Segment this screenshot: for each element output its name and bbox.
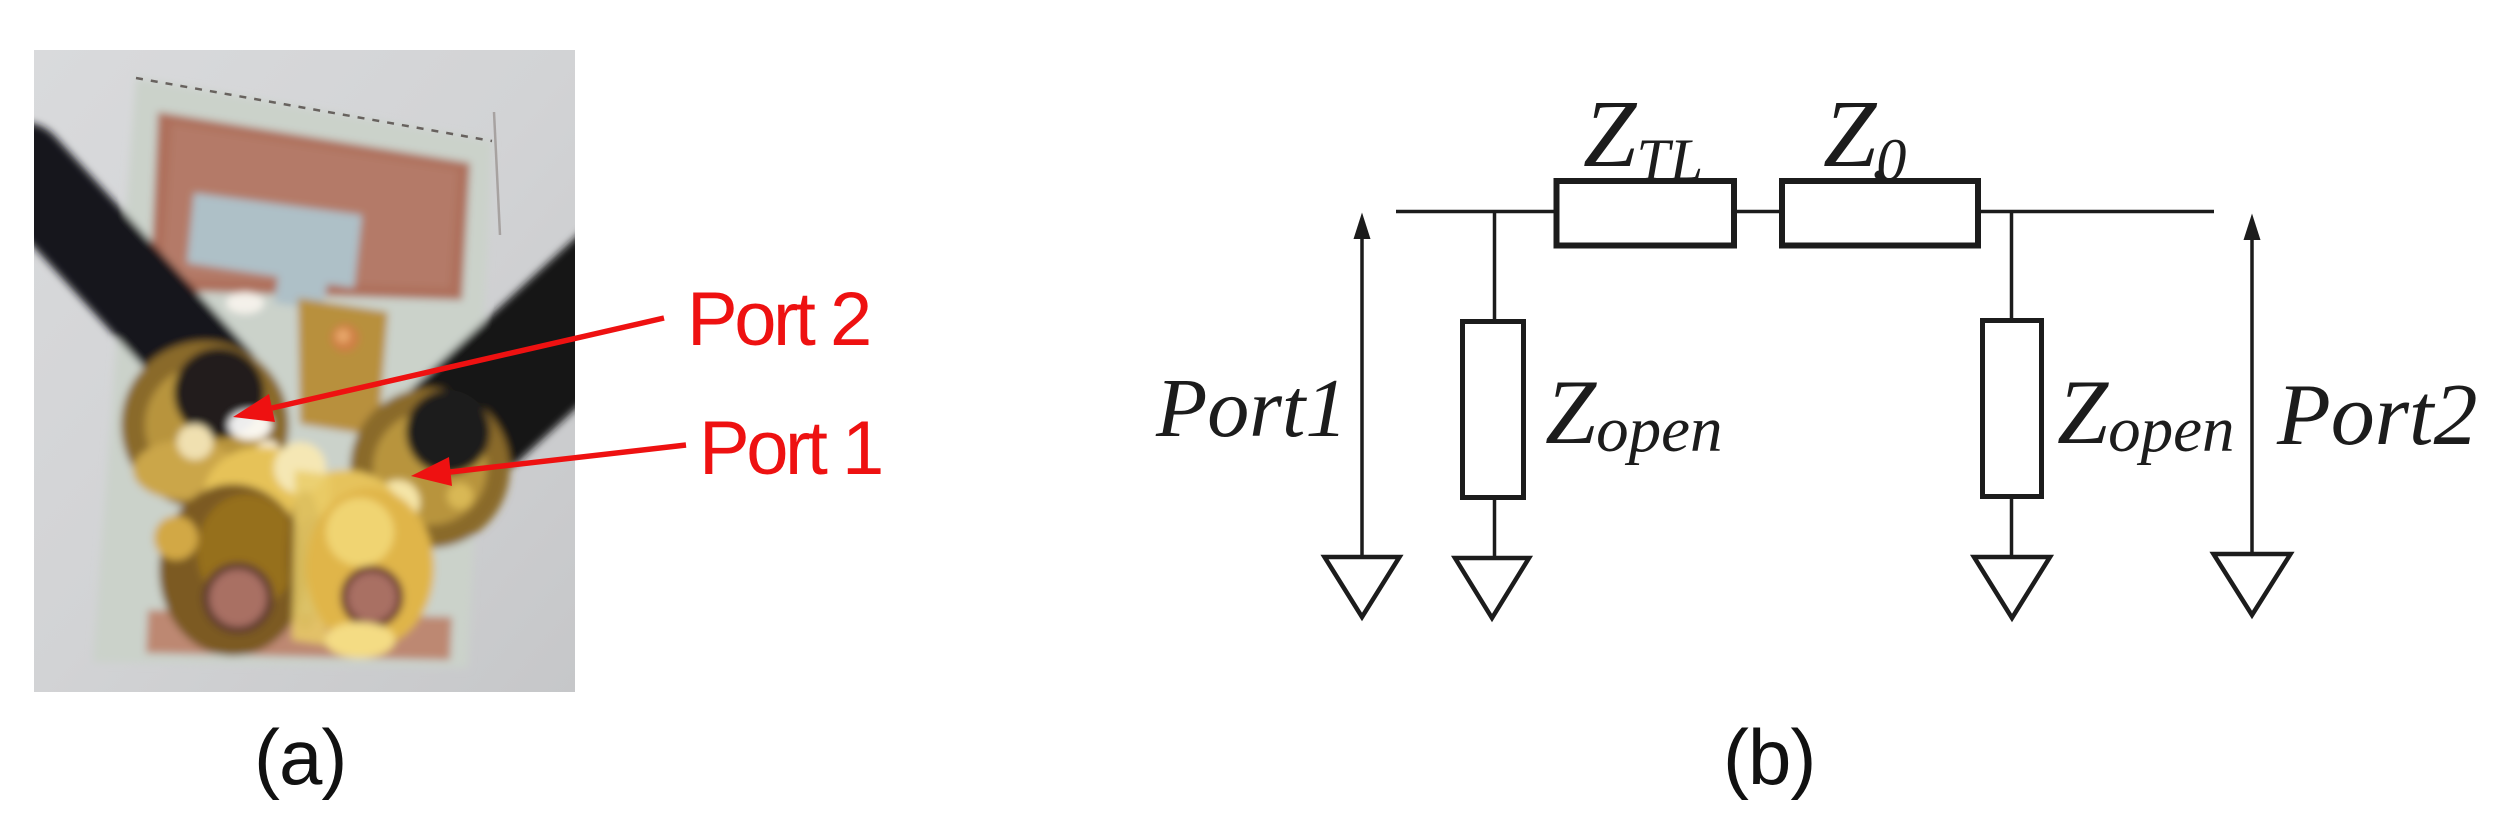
svg-text:Port 1: Port 1 [699, 406, 881, 491]
svg-text:Port2: Port2 [2276, 367, 2477, 464]
svg-text:Port 2: Port 2 [687, 277, 869, 362]
svg-text:ZTL: ZTL [1583, 80, 1703, 193]
svg-text:(a): (a) [254, 713, 346, 801]
svg-text:Port1: Port1 [1155, 362, 1347, 455]
svg-text:(b): (b) [1723, 713, 1815, 801]
svg-text:Zopen: Zopen [2057, 361, 2235, 466]
svg-text:Zopen: Zopen [1545, 361, 1723, 466]
svg-text:Z0: Z0 [1823, 80, 1906, 193]
